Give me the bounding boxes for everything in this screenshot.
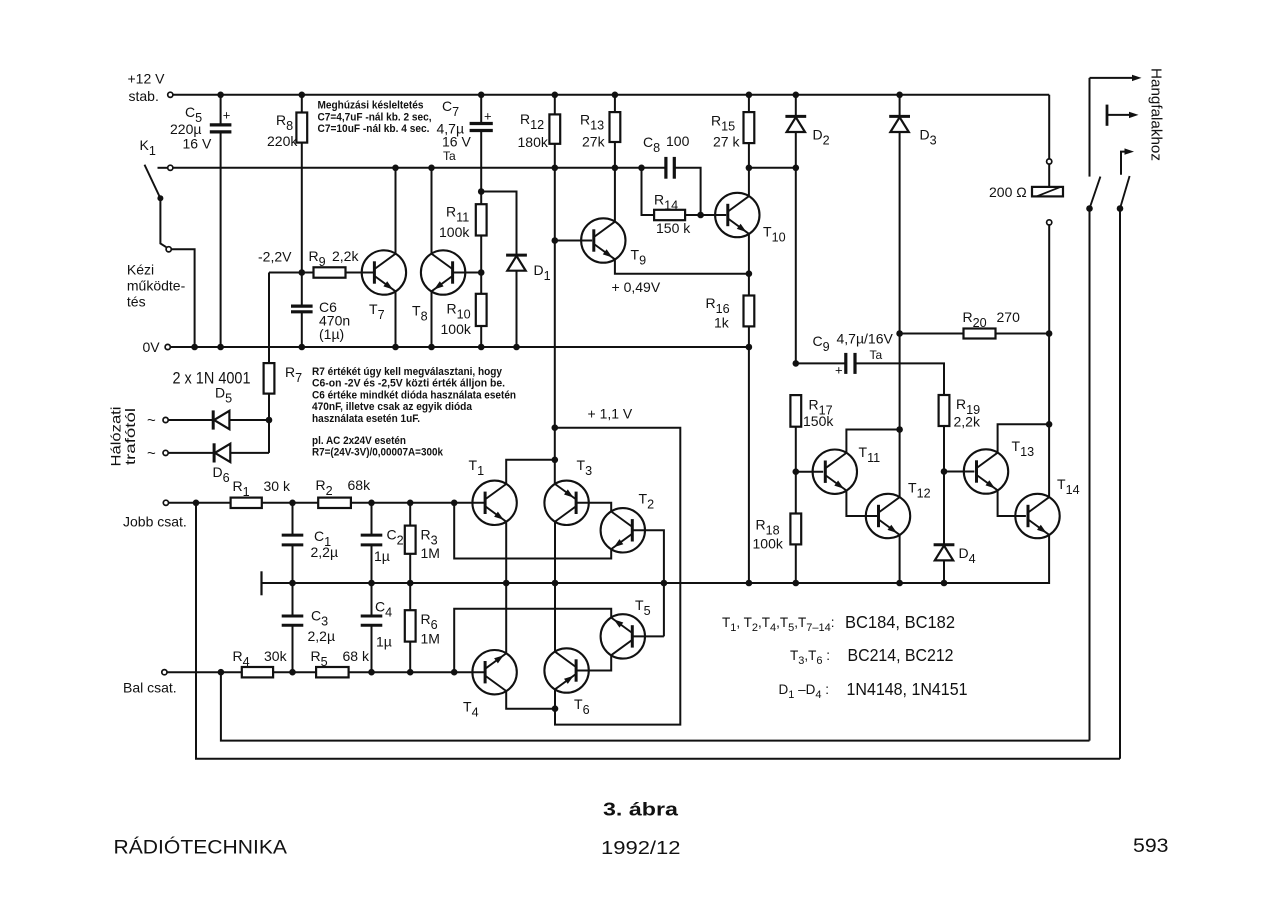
wire T13 emitter to T14 base xyxy=(998,490,1026,516)
wire T12 collector xyxy=(899,430,901,498)
junction dot D3/R20 xyxy=(896,330,903,337)
svg-text:T9: T9 xyxy=(631,247,647,268)
junction dot contact 2 xyxy=(1117,205,1124,212)
junction dot C7/R11/D1 xyxy=(478,188,485,195)
svg-text:16 V: 16 V xyxy=(183,136,212,152)
wire T8 emitter xyxy=(431,291,433,347)
junction dots on 0V rail xyxy=(191,344,752,351)
capacitor C8 xyxy=(666,157,701,215)
wire Jobb input rail xyxy=(169,502,231,504)
resistor R19 xyxy=(939,395,950,472)
svg-text:C2: C2 xyxy=(387,527,404,548)
transistor T12 xyxy=(866,494,910,538)
wire Bal input rail xyxy=(167,671,242,673)
svg-text:2,2µ: 2,2µ xyxy=(311,544,339,560)
svg-text:tés: tés xyxy=(127,294,146,310)
junction dot C2 top xyxy=(368,500,375,507)
svg-text:+ 1,1 V: + 1,1 V xyxy=(588,406,633,422)
svg-text:R6: R6 xyxy=(421,611,438,632)
svg-text:1µ: 1µ xyxy=(376,634,392,650)
label R16 1k xyxy=(706,295,730,331)
svg-text:4,7µ/16V: 4,7µ/16V xyxy=(837,331,894,347)
junction dot C1 top xyxy=(289,500,296,507)
svg-text:Hangfalakhoz: Hangfalakhoz xyxy=(1148,68,1165,161)
svg-text:T1, T2,T4,T5,T7–14:: T1, T2,T4,T5,T7–14: xyxy=(722,615,835,634)
junction dot R8/R9/C6 xyxy=(299,269,306,276)
svg-text:Ta: Ta xyxy=(870,348,883,362)
switch K1 xyxy=(145,165,167,248)
node mains terminal lower xyxy=(163,450,168,455)
wire T7 emitter xyxy=(395,291,397,347)
svg-text:C7=10uF -nál kb. 4 sec.: C7=10uF -nál kb. 4 sec. xyxy=(318,123,430,135)
node Bal csat terminal xyxy=(162,670,167,675)
wire T2 emitter loop xyxy=(454,503,611,559)
svg-text:Bal csat.: Bal csat. xyxy=(123,680,177,696)
wire T11 collector xyxy=(846,430,899,454)
svg-text:R5: R5 xyxy=(311,648,328,669)
svg-text:T3,T6 :: T3,T6 : xyxy=(790,648,830,667)
wire T10 base xyxy=(701,214,727,216)
resistor R2 xyxy=(318,498,485,508)
label R17 150k xyxy=(803,397,834,430)
diode D6 xyxy=(169,420,270,463)
label C9 4,7u/16V Ta xyxy=(813,331,894,363)
svg-text:trafótól: trafótól xyxy=(122,408,138,465)
transistor T11 xyxy=(813,450,857,494)
wire relay line to T13 xyxy=(1048,334,1050,425)
wire T4 collector xyxy=(506,691,555,709)
label C2 1u xyxy=(374,527,404,565)
label R5 68k xyxy=(311,648,370,669)
svg-text:T11: T11 xyxy=(859,444,881,465)
svg-text:30 k: 30 k xyxy=(264,478,291,494)
svg-text:T5: T5 xyxy=(635,597,651,618)
svg-text:T4: T4 xyxy=(463,699,479,720)
resistor R1 xyxy=(231,498,319,508)
svg-text:Ta: Ta xyxy=(443,149,456,163)
junction dot C3 bottom xyxy=(289,669,296,676)
label R8 220k xyxy=(267,112,298,149)
resistor R7 xyxy=(264,273,275,421)
svg-text:100k: 100k xyxy=(441,321,472,337)
svg-text:200 Ω: 200 Ω xyxy=(989,184,1027,200)
svg-text:C6-on -2V és -2,5V közti érték: C6-on -2V és -2,5V közti érték álljon be… xyxy=(312,378,505,390)
svg-text:1992/12: 1992/12 xyxy=(601,837,681,858)
wire R12 line to T3 xyxy=(554,428,556,484)
svg-text:C9: C9 xyxy=(813,333,830,354)
svg-text:T14: T14 xyxy=(1057,476,1080,497)
wire T14 emitter xyxy=(944,535,1049,583)
junction dot T1 base branch xyxy=(451,500,458,507)
capacitor C2 xyxy=(361,503,383,583)
svg-text:1M: 1M xyxy=(421,631,440,647)
svg-text:D2: D2 xyxy=(813,127,830,148)
svg-text:R12: R12 xyxy=(520,111,544,132)
note meghuzasi keslleltetes xyxy=(318,100,432,136)
svg-text:T1: T1 xyxy=(469,457,485,478)
svg-text:+: + xyxy=(484,109,492,124)
svg-text:T6: T6 xyxy=(574,696,590,717)
diode D5 xyxy=(169,410,270,429)
label R13 27k xyxy=(580,112,606,150)
svg-text:C8: C8 xyxy=(643,134,660,155)
svg-text:100k: 100k xyxy=(439,224,470,240)
transistor T13 xyxy=(964,449,1008,493)
label R15 27k xyxy=(711,113,740,150)
capacitor C7 xyxy=(470,95,493,192)
wire T11 base xyxy=(796,471,823,473)
junction dot T9 base xyxy=(552,237,559,244)
wire trigger rail xyxy=(158,167,667,169)
wire K1 terminal to 0V xyxy=(172,249,195,347)
svg-text:D5: D5 xyxy=(215,385,232,406)
wire T6 emitter xyxy=(554,689,556,708)
wire D3 line down xyxy=(899,334,901,430)
svg-text:T2: T2 xyxy=(639,491,655,512)
svg-text:150 k: 150 k xyxy=(656,220,691,236)
svg-text:R10: R10 xyxy=(447,301,471,322)
svg-text:220k: 220k xyxy=(267,133,298,149)
junction dot contact 1 xyxy=(1086,205,1093,212)
svg-text:BC184, BC182: BC184, BC182 xyxy=(845,612,955,632)
node +12V stab terminal xyxy=(168,92,173,97)
capacitor C3 xyxy=(282,583,304,672)
svg-text:1M: 1M xyxy=(421,545,440,561)
junction dots on common rail xyxy=(289,580,947,587)
wire common rail xyxy=(262,582,1050,584)
transistor T10 xyxy=(715,193,759,237)
diode D1 xyxy=(481,192,527,348)
relay contact 2 blade xyxy=(1120,176,1130,209)
svg-text:T12: T12 xyxy=(908,480,931,501)
resistor R5 xyxy=(316,667,486,677)
svg-text:2,2k: 2,2k xyxy=(332,248,359,264)
wire +12V rail xyxy=(173,94,1049,96)
transistor T3 xyxy=(544,481,588,525)
transistor T9 xyxy=(581,218,625,262)
svg-text:R4: R4 xyxy=(233,648,250,669)
wire 0V to common rail xyxy=(748,347,750,583)
svg-text:R18: R18 xyxy=(756,517,780,538)
label R18 100k xyxy=(753,517,784,552)
svg-text:0V: 0V xyxy=(143,339,161,355)
junction dot T4/T6 bottom xyxy=(552,705,559,712)
label R12 180k xyxy=(518,111,549,150)
svg-text:16 V: 16 V xyxy=(442,134,471,150)
wire T6 collector xyxy=(554,583,556,652)
junction dot R11/R10/T8base xyxy=(478,269,485,276)
wire relay contact 1 pole xyxy=(1089,78,1091,177)
svg-text:R7=(24V-3V)/0,00007A=300k: R7=(24V-3V)/0,00007A=300k xyxy=(312,447,444,459)
label R2 68k xyxy=(316,477,372,498)
label +12V stab xyxy=(128,71,166,105)
diode D2 xyxy=(785,95,806,168)
svg-text:R8: R8 xyxy=(276,112,293,133)
resistor R6 xyxy=(405,583,416,672)
wire 0V rail xyxy=(171,346,749,348)
capacitor C4 xyxy=(361,583,383,672)
resistor R4 xyxy=(242,667,316,677)
svg-text:RÁDIÓTECHNIKA: RÁDIÓTECHNIKA xyxy=(114,836,288,859)
junction dot relay/T13 collector xyxy=(1046,421,1053,428)
svg-text:stab.: stab. xyxy=(129,88,159,104)
wire T1 emitter xyxy=(505,522,507,584)
parts list line 3 xyxy=(779,679,968,701)
node relay upper terminal xyxy=(1047,159,1052,164)
diode D3 xyxy=(889,95,910,334)
svg-text:T7: T7 xyxy=(369,301,385,322)
wire T13 base xyxy=(944,471,974,473)
transistor T14 xyxy=(1015,494,1059,538)
svg-text:R9: R9 xyxy=(309,248,326,269)
svg-text:(1µ): (1µ) xyxy=(319,326,344,342)
label C7 4,7u 16V Ta xyxy=(437,98,472,163)
junction dots on trigger rail xyxy=(392,165,645,172)
label C4 1u xyxy=(375,599,392,650)
svg-text:Jobb csat.: Jobb csat. xyxy=(123,514,187,530)
resistor R13 xyxy=(610,95,621,168)
junction dots on +12V rail xyxy=(217,92,903,99)
svg-text:~: ~ xyxy=(147,412,156,429)
wire trigger jumper to D2 xyxy=(749,167,796,169)
svg-text:R1: R1 xyxy=(233,478,250,499)
svg-text:+ 0,49V: + 0,49V xyxy=(612,279,661,295)
label R1 30k xyxy=(233,478,291,499)
wire T1 collector xyxy=(506,460,555,484)
resistor R15 xyxy=(744,95,755,196)
relay coil 200ohm xyxy=(1032,164,1063,196)
wire T4 emitter xyxy=(505,583,507,653)
wire contact 2 to return xyxy=(1119,209,1121,759)
wire T8 collector xyxy=(431,168,433,254)
wire T11 emitter to T12 base xyxy=(846,490,878,516)
svg-text:T3: T3 xyxy=(577,457,593,478)
transistor T5 xyxy=(601,614,645,658)
svg-text:D3: D3 xyxy=(920,127,937,148)
label R11 100k xyxy=(439,204,470,241)
label R19 2,2k xyxy=(954,396,981,430)
svg-text:C3: C3 xyxy=(311,608,328,629)
svg-text:470nF, illetve csak az egyik d: 470nF, illetve csak az egyik dióda xyxy=(312,401,473,413)
resistor R8 xyxy=(296,95,307,273)
node K1 lower terminal xyxy=(166,247,171,252)
svg-text:pl. AC 2x24V esetén: pl. AC 2x24V esetén xyxy=(312,435,406,447)
transistor T6 xyxy=(544,648,588,692)
resistor R11 xyxy=(476,192,487,273)
wire R12 line to +1,1V bus xyxy=(554,241,556,428)
wire T13 collector xyxy=(998,424,1050,453)
svg-text:150k: 150k xyxy=(803,413,834,429)
label R14 150k xyxy=(654,192,691,237)
wire T12 emitter xyxy=(899,535,901,583)
label C5 220u 16V xyxy=(170,104,212,152)
arrow to speakers 2 hook xyxy=(1121,148,1134,174)
node mains terminal upper xyxy=(163,417,168,422)
svg-text:~: ~ xyxy=(147,445,156,462)
label Halozati trafotol xyxy=(108,407,139,467)
wire T9 emitter xyxy=(615,259,749,274)
svg-text:30k: 30k xyxy=(264,648,288,664)
svg-text:1µ: 1µ xyxy=(374,548,390,564)
resistor R16 xyxy=(744,274,755,347)
transistor T7 xyxy=(362,250,406,294)
node 0V terminal xyxy=(165,344,170,349)
resistor R12 xyxy=(549,95,560,241)
junction dot jumper/D2 xyxy=(793,165,800,172)
junction dot T13 base xyxy=(941,468,948,475)
svg-text:D1 –D4 :: D1 –D4 : xyxy=(779,682,830,701)
wire T5 emitter loop xyxy=(454,609,611,672)
svg-text:C6 értéke mindkét dióda haszná: C6 értéke mindkét dióda használata eseté… xyxy=(312,389,516,401)
svg-text:R16: R16 xyxy=(706,295,730,316)
wire T5 base xyxy=(632,635,664,637)
wire T6 base to T5 collector xyxy=(576,656,611,671)
svg-text:100k: 100k xyxy=(753,536,784,552)
junction dot T9/T10 emitters xyxy=(746,270,753,277)
junction dot Jobb return xyxy=(193,500,200,507)
transistor T1 xyxy=(472,481,516,525)
resistor R14 xyxy=(642,168,701,220)
wire T2 base xyxy=(632,530,664,636)
svg-text:2 x 1N 4001: 2 x 1N 4001 xyxy=(173,369,251,388)
label R6 1M xyxy=(421,611,440,647)
resistor R20 xyxy=(900,329,1050,339)
svg-text:68k: 68k xyxy=(348,477,372,493)
svg-text:D6: D6 xyxy=(213,464,230,485)
wire relay to R20 xyxy=(1048,225,1050,334)
capacitor C1 xyxy=(282,503,304,583)
note R7 selection xyxy=(312,366,516,459)
label R10 100k xyxy=(441,301,472,338)
svg-text:+: + xyxy=(223,108,231,123)
label R9 2,2k xyxy=(309,248,360,269)
relay contact 1 blade xyxy=(1090,177,1101,209)
svg-text:T13: T13 xyxy=(1012,438,1035,459)
wire Bal return loop xyxy=(221,672,1090,740)
label C1 2,2u xyxy=(311,528,339,560)
svg-text:K1: K1 xyxy=(140,137,156,158)
svg-text:D1: D1 xyxy=(534,262,551,283)
svg-text:R11: R11 xyxy=(446,204,469,225)
svg-text:1N4148, 1N4151: 1N4148, 1N4151 xyxy=(847,679,968,699)
wire +12V rail to relay xyxy=(1048,95,1050,159)
label R3 1M xyxy=(421,527,440,562)
parts list line 2 xyxy=(790,645,954,667)
transistor T8 xyxy=(421,250,465,294)
relay contact 1 fixed throw xyxy=(1107,105,1139,126)
svg-text:R2: R2 xyxy=(316,477,333,498)
resistor R9 xyxy=(314,267,375,277)
parts list line 1 xyxy=(722,612,955,634)
junction dot C9 left xyxy=(793,360,800,367)
wire T3 collector xyxy=(554,522,556,584)
svg-text:180k: 180k xyxy=(518,134,549,150)
wire T3 base to T2 collector xyxy=(576,503,611,512)
junction dot T4 base branch xyxy=(451,669,458,676)
junction dot R6 bottom xyxy=(407,669,414,676)
resistor R18 xyxy=(790,472,801,583)
junction dot R14/C8/T10base xyxy=(697,212,704,219)
svg-text:R15: R15 xyxy=(711,113,735,134)
wire T8 base xyxy=(453,272,482,274)
svg-text:R20: R20 xyxy=(963,309,987,330)
node relay lower terminal xyxy=(1047,220,1052,225)
svg-text:2,2k: 2,2k xyxy=(954,414,981,430)
svg-text:+12 V: +12 V xyxy=(128,71,166,87)
resistor R10 xyxy=(476,273,487,348)
junction dot C4 bottom xyxy=(368,669,375,676)
svg-text:T8: T8 xyxy=(412,303,428,324)
svg-text:2,2µ: 2,2µ xyxy=(308,628,336,644)
svg-text:Kézi: Kézi xyxy=(127,262,154,278)
svg-text:használata esetén 1uF.: használata esetén 1uF. xyxy=(312,413,420,425)
svg-text:1k: 1k xyxy=(714,315,730,331)
ground bar xyxy=(260,571,262,595)
wire +1,1V loop xyxy=(555,428,681,725)
junction dot R15/T10 collector xyxy=(746,165,753,172)
wire Jobb return loop xyxy=(196,503,1120,759)
junction dot T1/T3 feed xyxy=(552,457,559,464)
svg-text:+: + xyxy=(835,363,843,378)
label Kezi mukodtetes xyxy=(127,262,186,310)
label C3 2,2u xyxy=(308,608,336,645)
wire T7 collector xyxy=(395,168,397,254)
svg-text:működte-: működte- xyxy=(127,278,186,294)
resistor R17 xyxy=(790,395,801,472)
svg-text:R13: R13 xyxy=(580,112,604,133)
diode D4 xyxy=(934,472,955,584)
svg-text:3. ábra: 3. ábra xyxy=(603,800,679,820)
wire T10 emitter xyxy=(748,234,750,274)
svg-text:R7 értékét úgy kell megválaszt: R7 értékét úgy kell megválasztani, hogy xyxy=(312,366,503,378)
svg-text:27 k: 27 k xyxy=(713,134,740,150)
svg-text:593: 593 xyxy=(1133,836,1169,857)
svg-text:BC214, BC212: BC214, BC212 xyxy=(848,645,954,665)
svg-text:Meghúzási késleltetés: Meghúzási késleltetés xyxy=(318,100,424,112)
wire -2.2V node xyxy=(269,272,314,274)
capacitor C6 xyxy=(291,273,313,348)
svg-text:68 k: 68 k xyxy=(343,648,370,664)
junction dot T11 base xyxy=(793,468,800,475)
label C8 100 xyxy=(643,133,690,155)
label C6 470n 1u xyxy=(319,299,350,342)
svg-text:D4: D4 xyxy=(959,545,976,566)
transistor T4 xyxy=(472,650,516,694)
junction dot D3/T11 collector xyxy=(896,426,903,433)
junction dot relay/R20 xyxy=(1046,330,1053,337)
node trigger-rail terminal xyxy=(168,165,173,170)
svg-text:T10: T10 xyxy=(763,224,786,245)
svg-text:270: 270 xyxy=(997,309,1021,325)
wire D2 line to C9 xyxy=(795,168,797,364)
transistor T2 xyxy=(601,508,645,552)
label R4 30k xyxy=(233,648,288,669)
wire T9 collector xyxy=(614,168,616,222)
svg-text:27k: 27k xyxy=(582,134,606,150)
svg-text:C7: C7 xyxy=(442,98,459,119)
resistor R3 xyxy=(405,503,416,583)
junction dot Bal return xyxy=(218,669,225,676)
svg-text:100: 100 xyxy=(666,133,690,149)
node Jobb csat terminal xyxy=(163,500,168,505)
label R20 270 xyxy=(963,309,1021,330)
svg-text:R7: R7 xyxy=(285,364,302,385)
junction dot +1,1V xyxy=(552,424,559,431)
svg-text:-2,2V: -2,2V xyxy=(258,249,292,265)
wire T14 collector xyxy=(1048,424,1050,497)
capacitor C9 xyxy=(796,353,944,395)
junction dot R3 top xyxy=(407,500,414,507)
